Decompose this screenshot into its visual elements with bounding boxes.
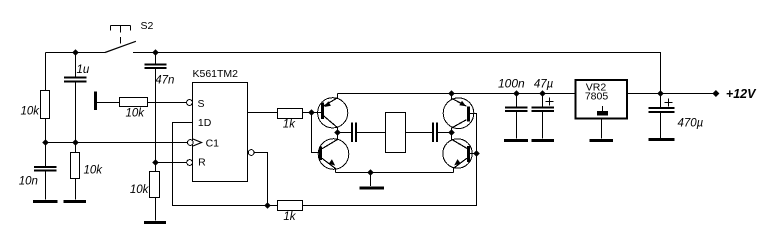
- svg-text:10k: 10k: [84, 165, 104, 177]
- svg-text:S2: S2: [141, 20, 154, 32]
- svg-text:1k: 1k: [283, 119, 296, 131]
- svg-text:47n: 47n: [155, 74, 174, 86]
- svg-text:10n: 10n: [19, 176, 38, 188]
- svg-text:47µ: 47µ: [534, 78, 554, 90]
- svg-text:10k: 10k: [126, 108, 146, 120]
- svg-text:470µ: 470µ: [678, 117, 704, 129]
- svg-text:1k: 1k: [283, 211, 296, 223]
- svg-text:K561TM2: K561TM2: [193, 68, 239, 80]
- svg-text:100n: 100n: [498, 76, 525, 90]
- svg-text:10k: 10k: [130, 184, 150, 196]
- svg-text:7805: 7805: [585, 91, 609, 103]
- svg-text:1D: 1D: [198, 117, 212, 129]
- svg-text:1u: 1u: [77, 64, 90, 76]
- svg-text:R: R: [198, 157, 206, 169]
- svg-text:10k: 10k: [21, 106, 41, 118]
- svg-text:C1: C1: [206, 138, 220, 150]
- svg-text:S: S: [198, 98, 205, 110]
- svg-text:+12V: +12V: [726, 87, 757, 101]
